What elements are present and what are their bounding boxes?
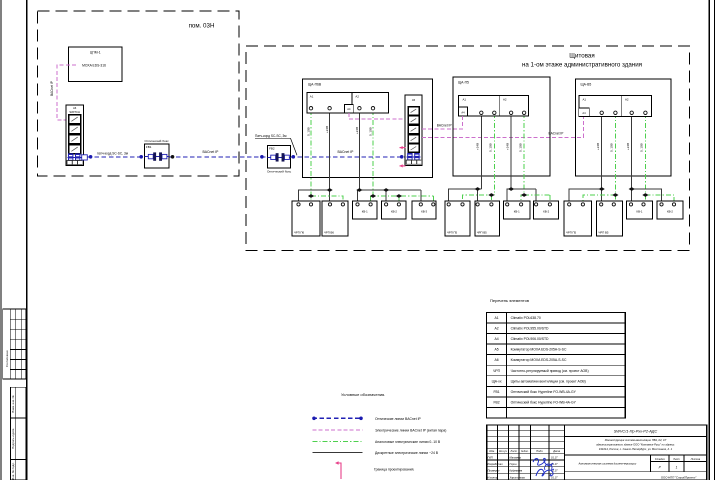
svg-text:A1: A1 — [583, 98, 587, 102]
svg-text:+24В: +24В — [506, 143, 510, 150]
svg-text:Автоматическая система диспетч: Автоматическая система диспетчеризации — [578, 462, 637, 466]
svg-text:Оптический бокс Hyperline FO-W: Оптический бокс Hyperline FO-WB-4A-GY — [511, 390, 577, 394]
svg-text:Дискретные электрические линии: Дискретные электрические линии ~24 В — [375, 451, 439, 455]
svg-text:ООО НПП "СтройПроект": ООО НПП "СтройПроект" — [661, 476, 698, 480]
svg-text:Climatix POL955.00/STD: Climatix POL955.00/STD — [511, 327, 549, 331]
svg-text:BACnet IP: BACnet IP — [549, 132, 564, 136]
svg-text:0..10В: 0..10В — [519, 143, 523, 152]
svg-text:Дата: Дата — [552, 449, 560, 453]
svg-text:SWITCH: SWITCH — [69, 110, 80, 114]
svg-text:Граница проектирования.: Граница проектирования. — [374, 468, 414, 472]
svg-text:Коммутатор MOXA EDS-205A-S-SC: Коммутатор MOXA EDS-205A-S-SC — [511, 348, 567, 352]
svg-text:A4: A4 — [347, 107, 351, 111]
svg-text:+24В: +24В — [355, 127, 359, 134]
svg-text:Кол.уч: Кол.уч — [499, 449, 507, 453]
svg-text:Н.контр.: Н.контр. — [488, 475, 499, 479]
svg-text:Разработал: Разработал — [488, 462, 504, 466]
svg-text:BACnet IP: BACnet IP — [437, 124, 452, 128]
svg-text:№док.: №док. — [521, 449, 529, 453]
svg-text:Перечень элементов: Перечень элементов — [490, 298, 529, 303]
svg-text:A5: A5 — [412, 98, 416, 102]
svg-text:ЩА-В5: ЩА-В5 — [581, 83, 592, 87]
svg-text:ЧРП В6: ЧРП В6 — [324, 231, 334, 235]
svg-text:Электрические линии BACnet IP: Электрические линии BACnet IP (витая пар… — [375, 428, 446, 432]
svg-text:A2: A2 — [355, 95, 359, 99]
svg-text:BACnet IP: BACnet IP — [203, 150, 220, 154]
svg-text:Щитовая: Щитовая — [569, 53, 594, 60]
svg-text:Подпись и дата: Подпись и дата — [11, 428, 15, 449]
svg-text:Матвеев: Матвеев — [510, 455, 522, 459]
svg-text:КВ-2: КВ-2 — [543, 209, 549, 213]
svg-text:Подп.: Подп. — [536, 449, 543, 453]
svg-text:A6: A6 — [73, 106, 77, 110]
svg-text:Взам. инв. №: Взам. инв. № — [11, 395, 15, 412]
svg-text:ЧРП П5: ЧРП П5 — [447, 231, 458, 235]
svg-text:MOXA EDS-316: MOXA EDS-316 — [82, 64, 106, 68]
svg-text:SWVC/1-Пр-Рхх-Р2-АДС: SWVC/1-Пр-Рхх-Р2-АДС — [614, 430, 658, 434]
svg-text:ЧРП П5: ЧРП П5 — [566, 231, 577, 235]
svg-text:КВ-3: КВ-3 — [421, 209, 427, 213]
svg-text:Лист: Лист — [672, 457, 681, 461]
svg-text:0..10В: 0..10В — [369, 127, 373, 136]
svg-text:Оптический бокс: Оптический бокс — [267, 169, 292, 173]
svg-text:A6: A6 — [494, 358, 498, 362]
svg-text:Climatix POL638.70: Climatix POL638.70 — [511, 316, 541, 320]
svg-text:01.17: 01.17 — [551, 455, 558, 459]
svg-text:01.17: 01.17 — [551, 475, 558, 479]
svg-text:Проверил: Проверил — [488, 469, 500, 473]
svg-text:ЧРП П6: ЧРП П6 — [294, 231, 305, 235]
svg-text:ЧРП В5: ЧРП В5 — [477, 231, 487, 235]
svg-text:патч-корд SC-SC, 3м: патч-корд SC-SC, 3м — [97, 151, 128, 155]
svg-text:КВ-1: КВ-1 — [362, 209, 368, 213]
svg-text:Оптический бокс Hyperline FO-W: Оптический бокс Hyperline FO-WB-4A-GY — [511, 400, 577, 404]
svg-text:+24В: +24В — [596, 143, 600, 150]
svg-text:Листов: Листов — [690, 457, 701, 461]
svg-text:A4: A4 — [582, 111, 586, 115]
svg-text:Изм.: Изм. — [489, 449, 495, 453]
svg-text:FB2: FB2 — [493, 400, 499, 404]
svg-text:Патч-корд SC-SC, 3м: Патч-корд SC-SC, 3м — [255, 134, 286, 138]
svg-text:ГИП: ГИП — [488, 455, 493, 459]
svg-text:Щиты автоматики вентиляции (см: Щиты автоматики вентиляции (см. проект А… — [511, 379, 586, 383]
svg-text:A1: A1 — [310, 95, 314, 99]
svg-text:FB2: FB2 — [269, 146, 275, 150]
svg-text:A1: A1 — [463, 98, 467, 102]
svg-text:1: 1 — [676, 466, 678, 470]
svg-text:Оптический бокс: Оптический бокс — [144, 139, 169, 143]
svg-text:ЩА-хх: ЩА-хх — [492, 379, 502, 383]
svg-text:+24В: +24В — [626, 143, 630, 150]
svg-text:Аналоговые электрические линии: Аналоговые электрические линии 0..10 В — [375, 440, 441, 444]
svg-text:Горин: Горин — [510, 462, 518, 466]
svg-text:ЦПМ-1: ЦПМ-1 — [90, 51, 101, 55]
svg-text:+24В: +24В — [325, 126, 329, 133]
svg-text:КВ-2: КВ-2 — [667, 209, 673, 213]
svg-text:0..10В: 0..10В — [640, 143, 644, 152]
svg-text:A2: A2 — [494, 327, 498, 331]
svg-text:Коммутатор MOXA EDS-205A-S-SC: Коммутатор MOXA EDS-205A-S-SC — [511, 358, 567, 362]
svg-text:Реконструкция систем вентиляци: Реконструкция систем вентиляции ПВ1, К2,… — [605, 438, 667, 442]
svg-text:КВ-1: КВ-1 — [637, 209, 643, 213]
svg-text:+24В: +24В — [476, 143, 480, 150]
svg-text:Оптические линии BACnet IP: Оптические линии BACnet IP — [375, 417, 422, 421]
svg-text:Лист: Лист — [509, 449, 518, 453]
svg-text:пом. 03Н: пом. 03Н — [189, 23, 215, 30]
svg-text:A5: A5 — [494, 348, 498, 352]
svg-text:ЧРП: ЧРП — [493, 369, 501, 373]
svg-text:на 1-ом этаже административног: на 1-ом этаже административного здания — [522, 62, 642, 69]
svg-text:A2: A2 — [625, 98, 629, 102]
svg-text:ЩА-П6В: ЩА-П6В — [308, 83, 322, 87]
svg-text:191014, Россия, г. Санкт-Петер: 191014, Россия, г. Санкт-Петербург, ул. … — [599, 447, 673, 451]
svg-text:ЧРП В5: ЧРП В5 — [599, 231, 609, 235]
svg-text:Условные обозначения.: Условные обозначения. — [341, 392, 385, 397]
svg-text:Согласовано: Согласовано — [5, 350, 9, 367]
svg-text:FB1: FB1 — [493, 390, 499, 394]
svg-text:0..10В: 0..10В — [307, 127, 311, 136]
svg-text:A4: A4 — [494, 337, 498, 341]
svg-text:ЩА-П5: ЩА-П5 — [458, 81, 469, 85]
svg-text:КВ-2: КВ-2 — [391, 209, 397, 213]
svg-text:Харитонова: Харитонова — [509, 475, 526, 479]
svg-text:A2: A2 — [503, 98, 507, 102]
svg-text:Инв. № подл.: Инв. № подл. — [11, 462, 15, 480]
svg-text:0..10В: 0..10В — [489, 143, 493, 152]
svg-text:административного здания ООО ": административного здания ООО "Компания Р… — [596, 442, 675, 446]
svg-text:Частотно-регулируемый привод (: Частотно-регулируемый привод (см. проект… — [511, 369, 589, 373]
svg-text:BACnet IP: BACnet IP — [50, 81, 54, 96]
svg-text:Кудрявцев: Кудрявцев — [510, 469, 523, 473]
svg-text:КВ-1: КВ-1 — [514, 209, 520, 213]
svg-text:FB1: FB1 — [146, 145, 152, 149]
svg-text:Climatix POL906.00/STD: Climatix POL906.00/STD — [511, 337, 549, 341]
svg-text:Стадия: Стадия — [655, 457, 665, 461]
svg-text:A1: A1 — [494, 316, 498, 320]
svg-text:A4: A4 — [461, 111, 465, 115]
svg-text:0..10В: 0..10В — [610, 143, 614, 152]
svg-text:BACnet IP: BACnet IP — [338, 150, 355, 154]
